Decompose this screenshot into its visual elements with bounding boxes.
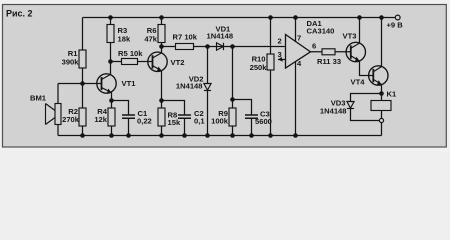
svg-text:R11 33: R11 33: [317, 57, 341, 66]
resistor R11: [322, 49, 335, 55]
node VD2 tap: [205, 44, 210, 49]
node R9 C3: [230, 97, 235, 102]
node rail-R3: [108, 15, 113, 20]
node VD1-R9: [230, 44, 235, 49]
op-amp DA1 triangle: [286, 35, 311, 69]
border frame: [3, 5, 447, 148]
wire BM1 bottom lead: [57, 125, 59, 136]
svg-text:100k: 100k: [211, 117, 229, 126]
capacitor C3: [245, 115, 258, 118]
svg-text:1N4148: 1N4148: [320, 107, 347, 116]
transistor VT4: [369, 66, 388, 85]
wire op-amp output to R11: [311, 51, 351, 53]
wire R5 row: [111, 61, 153, 63]
wire R9 column: [232, 47, 234, 136]
resistor R3: [107, 25, 114, 43]
diode VD3: [347, 102, 354, 109]
node rail-R10: [268, 15, 273, 20]
wire ground bus: [58, 135, 382, 137]
resistor R5: [122, 59, 138, 65]
svg-text:VT3: VT3: [343, 32, 357, 41]
svg-text:+9 В: +9 В: [387, 21, 404, 30]
node bus R9: [230, 133, 235, 138]
wire pin 7 riser: [295, 18, 297, 42]
terminal relay contact: [379, 118, 383, 122]
svg-text:390k: 390k: [62, 58, 80, 67]
node rail-R6: [159, 15, 164, 20]
transistor VT3: [346, 42, 365, 61]
node rail-VT3: [357, 15, 362, 20]
wire R1 to base node: [82, 68, 84, 84]
svg-text:7: 7: [297, 34, 301, 43]
resistor R1: [79, 50, 86, 68]
node bus C3: [249, 133, 254, 138]
node bus R10: [268, 133, 273, 138]
svg-text:VT1: VT1: [122, 79, 137, 88]
svg-text:R7 10k: R7 10k: [173, 33, 198, 42]
svg-text:12k: 12k: [94, 115, 107, 124]
svg-text:3: 3: [278, 50, 282, 59]
node VT1 emitter C1: [109, 98, 114, 103]
node bus C2: [182, 133, 187, 138]
node VT4 emitter VD3: [379, 91, 384, 96]
wire pin 4 drop: [295, 61, 297, 135]
transistor VT2: [148, 52, 167, 71]
wire base row BM1 to VT1: [58, 83, 102, 85]
resistor R8: [158, 108, 165, 126]
wire R6 column: [161, 18, 163, 47]
svg-text:2: 2: [278, 37, 282, 46]
svg-text:1N4148: 1N4148: [207, 32, 234, 41]
node bus pin4: [293, 133, 298, 138]
svg-text:R5 10k: R5 10k: [118, 49, 143, 58]
node R3-R5-VT1: [108, 59, 113, 64]
node bus R2: [80, 133, 85, 138]
wire VT1 emitter drop: [111, 93, 113, 101]
resistor R2: [79, 108, 86, 126]
node base R1/R2: [80, 81, 85, 86]
svg-text:VT2: VT2: [171, 58, 185, 67]
wire C1 branch: [112, 101, 129, 136]
resistor R7: [176, 44, 194, 50]
resistor R10 trimmer: [267, 54, 274, 70]
svg-text:270k: 270k: [62, 115, 80, 124]
svg-text:15k: 15k: [168, 118, 181, 127]
wire VT4 emitter drop: [381, 85, 383, 94]
svg-text:0,1: 0,1: [194, 117, 205, 126]
svg-text:0,22: 0,22: [137, 117, 152, 126]
node bus R8: [159, 133, 164, 138]
terminal +9V: [395, 15, 400, 20]
wire R2 column: [82, 84, 84, 136]
wire top +9V rail: [83, 17, 396, 19]
wire R1 column from rail: [82, 18, 84, 51]
microphone BM1: [46, 104, 62, 125]
node rail-VT4: [379, 15, 384, 20]
node bus VD2: [205, 133, 210, 138]
svg-text:K1: K1: [387, 90, 397, 99]
svg-text:250k: 250k: [250, 63, 268, 72]
wire VT3 collector riser: [359, 18, 361, 44]
node VT2 emitter R8: [159, 98, 164, 103]
node bus C1: [126, 133, 131, 138]
svg-text:5600: 5600: [255, 117, 272, 126]
svg-text:VT4: VT4: [351, 78, 366, 87]
wire R4 column: [111, 101, 113, 136]
wire BM1 top lead: [57, 84, 59, 104]
wire pin 3 wiper: [278, 59, 286, 61]
wire VT2 collector riser: [161, 47, 163, 54]
svg-text:CA3140: CA3140: [307, 27, 335, 36]
node rail-pin7: [293, 15, 298, 20]
diode VD2: [204, 84, 211, 91]
resistor R4: [108, 108, 115, 126]
wire VT2 emitter drop: [161, 71, 163, 101]
wire VT4 collector riser: [381, 18, 383, 67]
wire relay top lead: [381, 94, 383, 101]
svg-text:Рис. 2: Рис. 2: [6, 9, 33, 19]
wire VD3 bottom branch: [351, 109, 380, 121]
svg-text:47k: 47k: [144, 35, 157, 44]
wire VD3 top branch: [351, 94, 382, 102]
resistor R9: [229, 108, 236, 126]
node R6-VT2-R7: [159, 44, 164, 49]
wire relay bottom lead to bus: [381, 111, 383, 136]
wire C2 branch: [162, 101, 185, 136]
capacitor C1: [122, 115, 135, 118]
wire VT1 collector riser: [110, 62, 112, 75]
transistor VT1: [97, 74, 116, 93]
wire R3 column: [110, 18, 112, 62]
capacitor C2: [178, 115, 191, 118]
svg-text:6: 6: [312, 42, 316, 51]
wire VD2 column: [207, 47, 209, 136]
wire R8 column: [161, 101, 163, 136]
wire row pin2: R6 node to op-amp: [162, 46, 286, 48]
relay K1 coil: [371, 101, 391, 111]
svg-text:BM1: BM1: [30, 94, 47, 103]
node bus R4: [109, 133, 114, 138]
wire R10 column: [270, 18, 272, 136]
wire C3 branch: [233, 100, 252, 136]
diode VD1: [217, 43, 224, 50]
resistor R6: [158, 25, 165, 43]
wire VT3 emitter to VT4 base: [360, 61, 374, 76]
svg-text:1N4148: 1N4148: [176, 82, 203, 91]
svg-text:18k: 18k: [118, 35, 131, 44]
